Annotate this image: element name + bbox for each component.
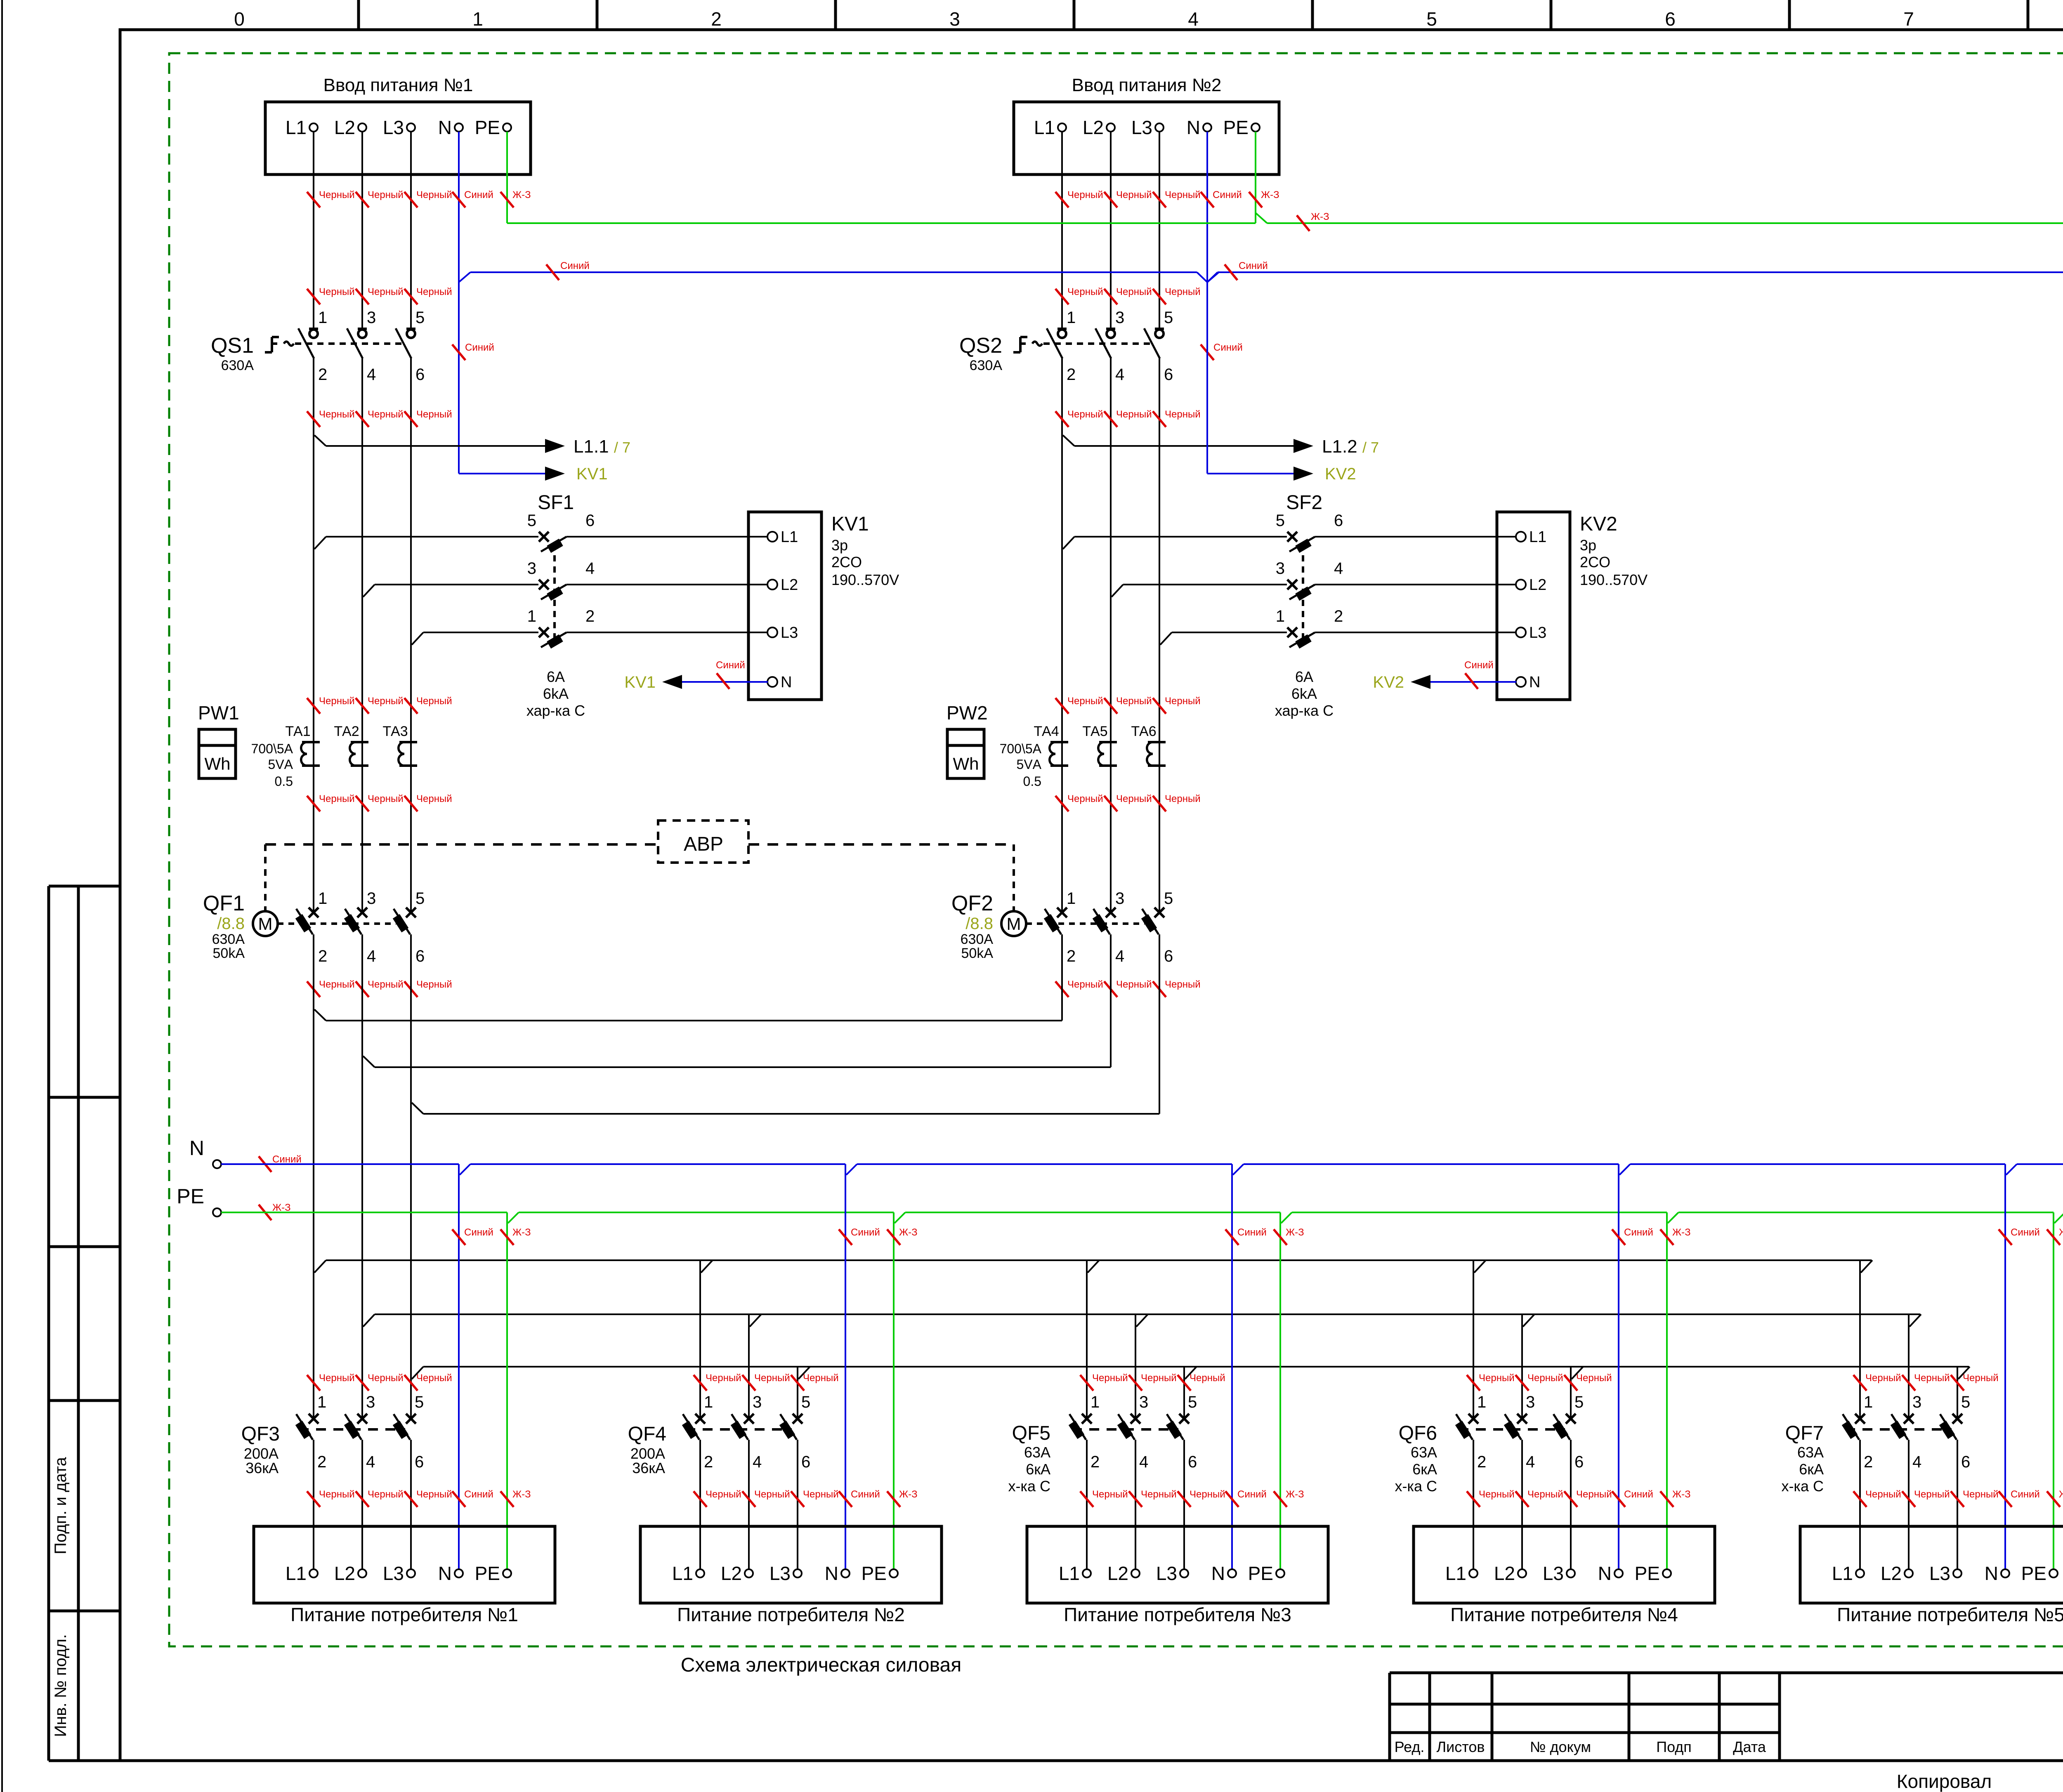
- svg-text:Ж-З: Ж-З: [899, 1227, 918, 1238]
- input 1 wire color marks below terminals: [307, 189, 531, 207]
- svg-text:1: 1: [1477, 1393, 1486, 1411]
- wire feeder 4 phase 2 from bus: [1521, 1314, 1523, 1419]
- svg-text:2CO: 2CO: [831, 554, 862, 571]
- svg-text:Черный: Черный: [319, 696, 355, 707]
- wire tie QF2 to bus phase 2: [363, 1056, 1111, 1067]
- svg-text:QF5: QF5: [1012, 1422, 1050, 1444]
- wire feeder 3 phase 2 QF5 to output: [1135, 1440, 1136, 1569]
- disconnector QS1 pole 3-4: [347, 309, 376, 384]
- output 1 terminal L2: [334, 1563, 366, 1584]
- svg-text:50kА: 50kА: [213, 946, 245, 961]
- N line color mark 1: [546, 260, 590, 280]
- svg-text:QF6: QF6: [1399, 1422, 1437, 1444]
- svg-text:L1: L1: [781, 528, 798, 546]
- svg-text:Дата: Дата: [1733, 1738, 1766, 1755]
- svg-text:L3: L3: [383, 1563, 404, 1584]
- relay KV2 designator: [1580, 513, 1648, 588]
- svg-text:ТА6: ТА6: [1131, 724, 1156, 739]
- breaker QF2 pole 5-6: [1141, 889, 1173, 965]
- svg-text:Черный: Черный: [1141, 1372, 1177, 1384]
- wire input 2 L1 terminal to QS2: [1061, 132, 1063, 329]
- feeder 4 wire color marks lower: [1467, 1489, 1691, 1507]
- output 3 terminal L3: [1156, 1563, 1188, 1584]
- svg-text:ТА5: ТА5: [1082, 724, 1107, 739]
- wire SF2 pin 2 to KV2: [1315, 632, 1516, 633]
- column ruler ticks: [359, 0, 2063, 30]
- svg-text:1: 1: [317, 1393, 326, 1411]
- svg-text:Черный: Черный: [754, 1489, 790, 1500]
- wire N bus: [221, 1164, 2063, 1175]
- svg-text:Черный: Черный: [706, 1372, 741, 1384]
- svg-text:QF4: QF4: [628, 1423, 666, 1445]
- input 1 wire color marks below QF1: [307, 979, 452, 997]
- svg-text:0.5: 0.5: [1023, 774, 1041, 789]
- svg-text:5: 5: [527, 512, 536, 530]
- input 1 terminal L3: [407, 123, 415, 132]
- svg-text:L3: L3: [781, 624, 798, 641]
- svg-text:Черный: Черный: [1116, 979, 1152, 990]
- input 1 N color mark: [452, 344, 465, 360]
- svg-text:Черный: Черный: [1165, 696, 1201, 707]
- wire input 1 phase 3 below QS1: [410, 358, 412, 912]
- wire feeder 5 phase 1 QF7 to output: [1859, 1440, 1861, 1569]
- svg-text:3: 3: [949, 8, 960, 30]
- wire input 2 L3 terminal to QS2: [1159, 132, 1160, 329]
- svg-text:Питание потребителя №3: Питание потребителя №3: [1064, 1604, 1291, 1625]
- input 2 terminal L2: [1107, 123, 1115, 132]
- svg-text:L1: L1: [1832, 1563, 1853, 1584]
- svg-text:PE: PE: [1635, 1563, 1660, 1584]
- output 1 terminal L1: [286, 1563, 318, 1584]
- svg-text:Синий: Синий: [1237, 1227, 1267, 1238]
- power input box 2: [1014, 102, 1279, 174]
- svg-text:630А: 630А: [970, 358, 1003, 373]
- svg-text:L3: L3: [769, 1563, 791, 1584]
- svg-text:N: N: [438, 117, 452, 138]
- title block table: [1390, 1673, 2063, 1761]
- svg-text:Инв. № подл.: Инв. № подл.: [52, 1634, 70, 1737]
- svg-text:5: 5: [415, 1393, 424, 1411]
- svg-text:Синий: Синий: [464, 1227, 493, 1238]
- svg-text:Ж-З: Ж-З: [1311, 211, 1329, 222]
- wire feeder 4 PE drop: [1666, 1212, 1668, 1569]
- svg-text:3: 3: [367, 889, 376, 908]
- svg-text:Черный: Черный: [1479, 1372, 1515, 1384]
- svg-text:Синий: Синий: [2011, 1489, 2040, 1500]
- svg-text:PE: PE: [475, 1563, 500, 1584]
- svg-text:L2: L2: [721, 1563, 742, 1584]
- svg-text:5: 5: [1961, 1393, 1970, 1411]
- svg-text:Ж-З: Ж-З: [1286, 1489, 1304, 1500]
- svg-text:3: 3: [527, 559, 536, 578]
- svg-text:4: 4: [1115, 365, 1124, 384]
- svg-text:3: 3: [366, 1393, 375, 1411]
- svg-text:L3: L3: [1543, 1563, 1564, 1584]
- node KV2 reference arrow: [1207, 465, 1356, 483]
- svg-text:4: 4: [753, 1453, 762, 1471]
- svg-text:Черный: Черный: [319, 1489, 355, 1500]
- relay KV1 designator: [831, 513, 899, 588]
- wire feeder 5 N drop: [2004, 1164, 2006, 1569]
- feeder 5 wire color marks above QF7: [1853, 1372, 1999, 1391]
- svg-text:Черный: Черный: [1576, 1489, 1612, 1500]
- input 2 wire color marks below CTs: [1055, 793, 1201, 811]
- breaker QF6 linkage: [1459, 1428, 1565, 1431]
- wire input 2 PE terminal down: [1255, 132, 1256, 223]
- input 2 terminal L3: [1155, 123, 1164, 132]
- svg-text:6kА: 6kА: [543, 685, 569, 702]
- svg-text:6: 6: [1574, 1453, 1584, 1471]
- svg-text:L3: L3: [1929, 1563, 1950, 1584]
- svg-text:хар-ка С: хар-ка С: [1275, 702, 1334, 719]
- svg-text:1: 1: [318, 309, 327, 327]
- relay KV2 terminal N: [1516, 674, 1540, 691]
- disconnector QS2 drive symbol: [1013, 337, 1042, 352]
- wire feeder 3 phase 2 from bus: [1135, 1314, 1136, 1419]
- wire input 2 branch to SF2 pin 1: [1160, 632, 1287, 645]
- svg-text:Черный: Черный: [319, 189, 355, 200]
- svg-text:Питание потребителя №2: Питание потребителя №2: [677, 1604, 905, 1625]
- current transformer ТА3: [382, 724, 417, 766]
- output box consumer 4: [1414, 1526, 1715, 1603]
- input 2 wire color marks above QS2: [1055, 286, 1201, 304]
- svg-text:L1.1: L1.1: [574, 436, 609, 457]
- svg-text:PE: PE: [1223, 117, 1249, 138]
- wire N distribution line: [470, 272, 2063, 282]
- svg-text:Черный: Черный: [706, 1489, 741, 1500]
- svg-text:Питание потребителя №5: Питание потребителя №5: [1837, 1604, 2063, 1625]
- breaker QF5 designator: [1008, 1422, 1050, 1495]
- svg-text:Черный: Черный: [319, 409, 355, 420]
- svg-text:Схема электрическая силовая: Схема электрическая силовая: [681, 1654, 962, 1676]
- svg-text:L2: L2: [1494, 1563, 1515, 1584]
- svg-text:KV1: KV1: [624, 673, 656, 691]
- PE bus color mark: [259, 1202, 291, 1220]
- breaker QF6 pole 3-4: [1504, 1393, 1535, 1471]
- svg-text:4: 4: [1188, 8, 1199, 30]
- input 1 wire color marks above QS1: [307, 286, 452, 304]
- output box consumer 5: [1800, 1526, 2063, 1603]
- output 5 terminal PE: [2021, 1563, 2058, 1584]
- svg-text:5: 5: [801, 1393, 810, 1411]
- svg-text:Синий: Синий: [560, 260, 590, 271]
- svg-text:KV2: KV2: [1580, 513, 1617, 535]
- svg-text:№ докум: № докум: [1530, 1738, 1591, 1755]
- svg-text:L3: L3: [1529, 624, 1546, 641]
- input 1 wire color marks below QS1: [307, 409, 452, 427]
- wire feeder 5 phase 1 from bus: [1859, 1260, 1861, 1419]
- left filing blocks: [49, 886, 121, 1761]
- output 3 terminal L2: [1107, 1563, 1140, 1584]
- wire distribution bus L2: [363, 1314, 1921, 1327]
- breaker SF1 pole 3-4: [527, 559, 595, 601]
- svg-text:4: 4: [367, 365, 376, 384]
- svg-text:L1: L1: [286, 117, 307, 138]
- wire feeder 2 phase 2 from bus: [748, 1314, 750, 1419]
- breaker QF5 pole 3-4: [1117, 1393, 1148, 1471]
- svg-text:L1: L1: [286, 1563, 307, 1584]
- breaker QF6 pole 5-6: [1553, 1393, 1584, 1471]
- KV1 N wire color mark: [716, 660, 745, 689]
- svg-text:63А: 63А: [1024, 1444, 1050, 1461]
- svg-text:0: 0: [234, 8, 245, 30]
- svg-text:Черный: Черный: [1067, 286, 1103, 297]
- wire feeder 2 phase 1 from bus: [699, 1260, 701, 1419]
- svg-text:Черный: Черный: [368, 793, 404, 804]
- wire input 1 L3 terminal to QS1: [410, 132, 412, 329]
- input 2 terminal N: [1203, 123, 1211, 132]
- wire KV1 N return: [677, 681, 768, 683]
- svg-text:Черный: Черный: [754, 1372, 790, 1384]
- svg-text:Синий: Синий: [464, 1489, 493, 1500]
- svg-text:Черный: Черный: [1116, 189, 1152, 200]
- svg-text:х-ка С: х-ка С: [1395, 1478, 1437, 1495]
- svg-text:KV1: KV1: [576, 465, 608, 483]
- KV2 N wire color mark: [1464, 660, 1494, 689]
- wire feeder 4 phase 1 QF6 to output: [1473, 1440, 1474, 1569]
- column ruler numbers: [234, 8, 2063, 30]
- svg-text:Ж-З: Ж-З: [512, 1227, 531, 1238]
- svg-text:7: 7: [1903, 8, 1914, 30]
- svg-text:Ж-З: Ж-З: [1286, 1227, 1304, 1238]
- svg-text:Черный: Черный: [416, 1372, 452, 1384]
- svg-text:Синий: Синий: [272, 1154, 302, 1165]
- svg-text:Питание потребителя №4: Питание потребителя №4: [1450, 1604, 1678, 1625]
- disconnector QS1 pole 5-6: [396, 309, 425, 384]
- svg-text:Листов: Листов: [1437, 1738, 1485, 1755]
- breaker QF1 motor drive: [253, 844, 396, 936]
- breaker QF3 pole 5-6: [393, 1393, 424, 1471]
- svg-text:4: 4: [1334, 559, 1343, 578]
- title block row labels: [1395, 1738, 1766, 1755]
- svg-text:Синий: Синий: [464, 189, 493, 200]
- input 1 wire color marks below CTs: [307, 793, 452, 811]
- svg-text:Черный: Черный: [1527, 1372, 1563, 1384]
- breaker SF1 linkage: [553, 544, 556, 640]
- svg-text:N: N: [1211, 1563, 1225, 1584]
- svg-text:1: 1: [704, 1393, 713, 1411]
- svg-text:Ж-З: Ж-З: [1672, 1227, 1691, 1238]
- feeder 5 wire color marks lower: [1853, 1489, 2063, 1507]
- wire input 1 L1 terminal to QS1: [313, 132, 314, 329]
- svg-text:5: 5: [1164, 309, 1173, 327]
- svg-text:3: 3: [1912, 1393, 1921, 1411]
- output 4 terminal L2: [1494, 1563, 1526, 1584]
- breaker QF4 pole 5-6: [779, 1393, 810, 1471]
- output 5 terminal L1: [1832, 1563, 1864, 1584]
- breaker QF7 designator: [1781, 1422, 1824, 1495]
- input 2 wire color marks below QF2: [1055, 979, 1201, 997]
- relay KV2 terminal L2: [1516, 576, 1546, 594]
- breaker QF1 pole 1-2: [295, 889, 327, 965]
- output 5 terminal L2: [1881, 1563, 1913, 1584]
- svg-text:Черный: Черный: [1067, 696, 1103, 707]
- svg-text:190..570V: 190..570V: [831, 571, 899, 588]
- meter PW2 box: [947, 729, 984, 778]
- svg-text:4: 4: [366, 1453, 375, 1471]
- svg-text:2: 2: [585, 607, 595, 625]
- disconnector QS2 linkage: [1043, 342, 1153, 345]
- N bus color mark: [259, 1154, 302, 1172]
- wire feeder 1 phase 3 QF3 to output: [410, 1440, 412, 1569]
- svg-text:АВР: АВР: [684, 833, 723, 855]
- current transformer ТА6: [1131, 724, 1166, 766]
- input 2 terminal PE: [1251, 123, 1260, 132]
- svg-text:5VА: 5VА: [268, 757, 293, 772]
- svg-text:1: 1: [1091, 1393, 1100, 1411]
- wire feeder 5 PE drop: [2053, 1212, 2054, 1569]
- svg-text:SF1: SF1: [538, 492, 574, 514]
- svg-text:L1: L1: [672, 1563, 693, 1584]
- wire АВР linkage dashed: [265, 843, 1014, 846]
- output box consumer 1: [254, 1526, 555, 1603]
- svg-text:1: 1: [1067, 889, 1076, 908]
- svg-text:Черный: Черный: [1141, 1489, 1177, 1500]
- wire feeder 4 phase 2 QF6 to output: [1521, 1440, 1523, 1569]
- svg-text:Синий: Синий: [851, 1489, 880, 1500]
- svg-text:Синий: Синий: [465, 342, 494, 353]
- svg-text:Черный: Черный: [1116, 409, 1152, 420]
- svg-text:3: 3: [1115, 889, 1124, 908]
- svg-text:1: 1: [1864, 1393, 1873, 1411]
- svg-text:Ж-З: Ж-З: [2059, 1489, 2063, 1500]
- feeder 4 wire color marks above QF6: [1467, 1372, 1612, 1391]
- svg-text:6кА: 6кА: [1026, 1461, 1050, 1478]
- breaker QF1 pole 3-4: [344, 889, 376, 965]
- svg-text:х-ка С: х-ка С: [1781, 1478, 1824, 1495]
- wire feeder 5 phase 2 from bus: [1908, 1314, 1910, 1419]
- svg-text:Ж-З: Ж-З: [1672, 1489, 1691, 1500]
- svg-text:L2: L2: [334, 1563, 355, 1584]
- svg-text:N: N: [438, 1563, 452, 1584]
- breaker QF5 pole 5-6: [1166, 1393, 1197, 1471]
- relay KV1 terminal L1: [767, 528, 798, 546]
- wire feeder 2 phase 2 QF4 to output: [748, 1440, 750, 1569]
- svg-text:L1: L1: [1034, 117, 1055, 138]
- svg-text:Ж-З: Ж-З: [512, 189, 531, 200]
- breaker QF6 pole 1-2: [1455, 1393, 1486, 1471]
- svg-text:ТА1: ТА1: [285, 724, 310, 739]
- wire input 1 PE terminal down: [506, 132, 508, 223]
- svg-text:630А: 630А: [221, 358, 254, 373]
- wire QF2 output 3 down to tie: [1159, 934, 1160, 1114]
- output 2 terminal N: [825, 1563, 850, 1584]
- svg-text:6: 6: [1334, 512, 1343, 530]
- svg-text:50kА: 50kА: [961, 946, 994, 961]
- svg-text:х-ка С: х-ка С: [1008, 1478, 1050, 1495]
- svg-text:1: 1: [1067, 309, 1076, 327]
- svg-text:Ввод питания №1: Ввод питания №1: [323, 75, 473, 95]
- breaker QF2 pole 1-2: [1044, 889, 1076, 965]
- wire input 2 phase 1 below QS2: [1061, 358, 1063, 912]
- svg-text:36кА: 36кА: [245, 1460, 279, 1476]
- svg-text:N: N: [1187, 117, 1200, 138]
- svg-text:Черный: Черный: [1067, 409, 1103, 420]
- wire distribution bus L3: [412, 1367, 1970, 1379]
- svg-text:Черный: Черный: [1865, 1489, 1901, 1500]
- breaker QF7 linkage: [1845, 1428, 1952, 1431]
- svg-text:QS2: QS2: [959, 334, 1002, 358]
- wire feeder 3 phase 3 QF5 to output: [1183, 1440, 1185, 1569]
- input 2 wire color marks above CTs: [1055, 696, 1201, 714]
- power input box 1: [265, 102, 531, 174]
- relay KV1 terminal N: [767, 674, 792, 691]
- svg-text:L2: L2: [1529, 576, 1546, 594]
- svg-text:4: 4: [585, 559, 595, 578]
- svg-text:1: 1: [318, 889, 327, 908]
- wire SF1 pin 2 to KV1: [566, 632, 768, 633]
- relay KV2 terminal L1: [1516, 528, 1546, 546]
- svg-text:L3: L3: [1131, 117, 1152, 138]
- svg-text:6: 6: [1164, 947, 1173, 965]
- svg-text:PW1: PW1: [198, 702, 239, 724]
- disconnector QS2 pole 3-4: [1095, 309, 1124, 384]
- svg-text:3: 3: [1526, 1393, 1535, 1411]
- svg-text:2: 2: [1067, 365, 1076, 384]
- svg-text:Черный: Черный: [416, 189, 452, 200]
- svg-text:Черный: Черный: [416, 793, 452, 804]
- svg-text:N: N: [781, 674, 792, 691]
- svg-text:Черный: Черный: [319, 1372, 355, 1384]
- svg-text:6: 6: [801, 1453, 810, 1471]
- svg-text:Черный: Черный: [1190, 1489, 1225, 1500]
- svg-text:2: 2: [1334, 607, 1343, 625]
- svg-text:Черный: Черный: [416, 286, 452, 297]
- svg-text:Черный: Черный: [416, 696, 452, 707]
- svg-text:Подп: Подп: [1656, 1738, 1692, 1755]
- svg-text:36кА: 36кА: [632, 1460, 665, 1476]
- svg-text:L3: L3: [1156, 1563, 1177, 1584]
- svg-text:Синий: Синий: [1213, 342, 1243, 353]
- breaker QF5 pole 1-2: [1069, 1393, 1100, 1471]
- svg-text:L1.2: L1.2: [1322, 436, 1357, 457]
- svg-text:Синий: Синий: [1624, 1489, 1653, 1500]
- svg-text:QS1: QS1: [211, 334, 254, 358]
- breaker QF4 linkage: [685, 1428, 792, 1431]
- breaker QF1 pole 5-6: [393, 889, 425, 965]
- breaker QF4 pole 1-2: [682, 1393, 713, 1471]
- input 2 terminal L1: [1058, 123, 1066, 132]
- svg-text:Черный: Черный: [1963, 1372, 1999, 1384]
- svg-text:Черный: Черный: [319, 979, 355, 990]
- svg-text:2: 2: [704, 1453, 713, 1471]
- svg-text:N: N: [1529, 674, 1540, 691]
- svg-text:/8.8: /8.8: [217, 915, 245, 933]
- svg-text:700\5А: 700\5А: [1000, 741, 1042, 756]
- svg-text:6: 6: [415, 365, 425, 384]
- wire input 2 N terminal down: [1206, 132, 1208, 474]
- svg-text:Черный: Черный: [416, 409, 452, 420]
- svg-text:4: 4: [367, 947, 376, 965]
- svg-text:KV1: KV1: [831, 513, 869, 535]
- svg-text:Черный: Черный: [1914, 1372, 1950, 1384]
- svg-text:Синий: Синий: [851, 1227, 880, 1238]
- svg-text:5: 5: [1164, 889, 1173, 908]
- svg-text:Ж-З: Ж-З: [512, 1489, 531, 1500]
- svg-text:4: 4: [1139, 1453, 1148, 1471]
- feeder 1 wire color marks lower: [307, 1489, 531, 1507]
- output 2 terminal L2: [721, 1563, 753, 1584]
- feeder 2 wire color marks above QF4: [694, 1372, 839, 1391]
- input 2 wire color marks below QS2: [1055, 409, 1201, 427]
- svg-text:2: 2: [1864, 1453, 1873, 1471]
- svg-text:6: 6: [1164, 365, 1173, 384]
- svg-text:5: 5: [1426, 8, 1437, 30]
- breaker SF2 ratings: [1275, 668, 1334, 719]
- svg-text:L2: L2: [1083, 117, 1104, 138]
- svg-text:Черный: Черный: [368, 286, 404, 297]
- svg-text:PE: PE: [475, 117, 500, 138]
